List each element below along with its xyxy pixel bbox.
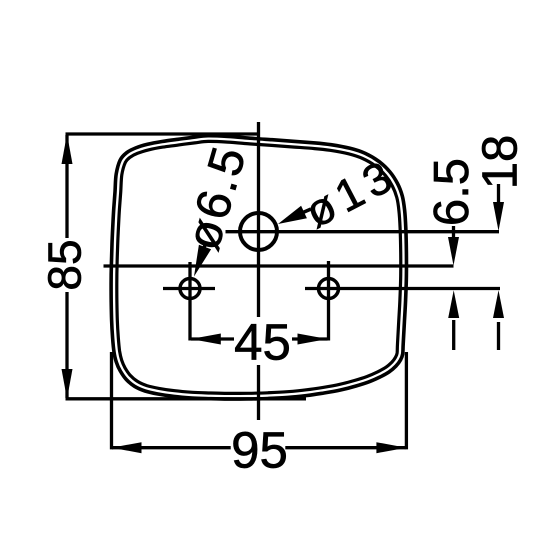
dim 6.5 arrow up (448, 290, 459, 318)
svg-text:95: 95 (231, 422, 288, 479)
dim 95 arrow left (112, 442, 142, 453)
dim 18 lower stem (497, 322, 500, 350)
dim 18 arrow up (493, 290, 504, 318)
leader line for diam 13 label (296, 209, 311, 216)
dim 45 line right segment (292, 337, 328, 340)
dim 95 right extension line (405, 352, 408, 449)
right hole horizontal crosshair long line (305, 287, 500, 290)
dim 85 line upper segment (65, 135, 68, 238)
dim 95 left extension line (110, 352, 113, 449)
horizontal reference line (104, 264, 454, 267)
right hole vertical crosshair / extension (327, 261, 330, 341)
right hole (diam 6.5) circle (319, 279, 339, 299)
dim 85 top extension line (66, 132, 260, 135)
dim 6.5 lower stem (452, 320, 455, 350)
dim 6.5 upper stem (452, 226, 455, 246)
vertical centerline (upper) (257, 122, 260, 317)
svg-text:18: 18 (474, 135, 528, 190)
housing outline outer (111, 136, 406, 399)
dim 18 arrow down (493, 202, 504, 231)
svg-text:85: 85 (39, 239, 91, 290)
dim 85 bottom extension line (66, 397, 307, 400)
dim 6.5 arrow down (448, 237, 459, 266)
svg-text:45: 45 (234, 314, 291, 371)
dim 85 arrow up (62, 134, 73, 164)
dim 45 line left segment (191, 337, 234, 340)
left hole (diam 6.5) circle (180, 279, 200, 299)
vertical centerline (lower) (257, 365, 260, 420)
leader line for diam 6.5 label (200, 242, 206, 260)
left hole vertical crosshair / extension (188, 262, 191, 341)
dim 45 arrow left (191, 334, 221, 345)
left hole horizontal crosshair (163, 287, 215, 290)
dim 95 line left segment (112, 446, 231, 449)
leader arrowhead diam 13 (278, 206, 307, 224)
leader arrowhead diam 6.5 (194, 245, 211, 277)
dim 45 arrow right (298, 334, 328, 345)
horizontal line through big hole (226, 230, 500, 233)
big hole (diam 13) (240, 213, 277, 250)
dim 95 arrow right (376, 442, 406, 453)
svg-text:6.5: 6.5 (425, 158, 479, 226)
housing outline inner (117, 141, 401, 393)
dim 18 upper stem (497, 184, 500, 208)
dim 85 line lower segment (65, 292, 68, 398)
dim 85 arrow down (62, 369, 73, 399)
dim 95 line right segment (285, 446, 405, 449)
